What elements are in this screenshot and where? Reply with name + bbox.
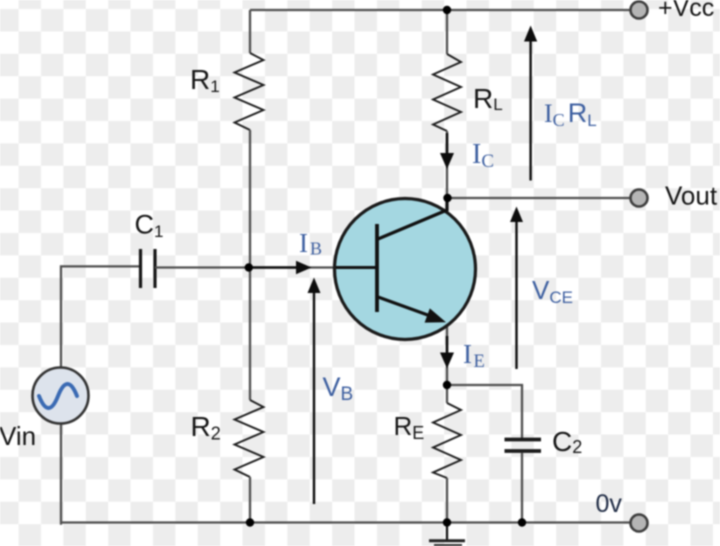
node Vout / collector	[443, 194, 451, 202]
svg-text:Vin: Vin	[0, 421, 36, 451]
resistor R2	[235, 400, 264, 477]
svg-text:Vout: Vout	[665, 181, 718, 211]
wire emitter lead	[446, 322, 448, 385]
source Vin sine	[39, 384, 77, 408]
svg-text:IC: IC	[472, 139, 494, 172]
svg-text:RL: RL	[473, 83, 503, 114]
svg-text:R2: R2	[191, 411, 221, 444]
transistor Q1 base wire	[336, 266, 377, 269]
wire C1 to base	[155, 266, 340, 268]
arrow IC	[446, 133, 449, 156]
resistor RE	[433, 403, 461, 478]
resistor RL	[433, 54, 461, 131]
source Vin circle	[33, 368, 89, 424]
transistor Q1 base bar	[375, 224, 379, 312]
arrow IE	[446, 336, 449, 355]
arrow VB	[313, 291, 315, 504]
svg-text:IB: IB	[299, 228, 322, 259]
ground	[429, 541, 465, 546]
wire base node to R2 top	[249, 268, 251, 401]
arrow IB	[253, 266, 298, 269]
transistor Q1 body	[335, 199, 476, 340]
wire bottom 0v rail	[61, 521, 630, 523]
terminal +Vcc	[631, 2, 648, 19]
wire RE top lead	[446, 385, 448, 403]
wire R2 bottom to 0v rail	[249, 477, 251, 523]
terminal Vout	[631, 190, 648, 207]
wire emitter node to C2	[447, 385, 522, 438]
resistor R1	[235, 53, 264, 130]
node C2 / 0v rail	[518, 518, 526, 526]
svg-text:VCE: VCE	[532, 275, 573, 307]
transistor Q1 collector stroke	[378, 198, 447, 239]
node base / R1 R2	[245, 263, 253, 271]
wire ground stub	[446, 523, 448, 541]
wire R1 top stub	[249, 10, 251, 53]
svg-text:0v: 0v	[596, 490, 623, 518]
wire Vin bottom lead	[61, 424, 62, 524]
transistor Q1 emitter stroke	[378, 297, 436, 318]
svg-text:C1: C1	[135, 210, 164, 242]
node emitter / RE C2	[443, 381, 451, 389]
wire RL bottom to Vout node	[446, 131, 448, 198]
wire RL top stub	[446, 10, 448, 54]
wire RE bottom lead	[446, 478, 448, 523]
arrow IC RL	[529, 40, 531, 181]
capacitor C1	[141, 249, 156, 288]
svg-text:C2: C2	[552, 426, 582, 457]
node RE / 0v rail	[443, 518, 451, 526]
svg-text:ICRL: ICRL	[544, 98, 597, 130]
terminal 0v	[631, 515, 648, 532]
arrow VCE	[515, 221, 517, 369]
wire Vin top lead	[61, 266, 139, 367]
capacitor C2	[505, 440, 542, 452]
wire top rail +Vcc	[250, 9, 630, 11]
svg-text:IE: IE	[463, 339, 485, 372]
node R2 / 0v rail	[246, 518, 254, 526]
svg-text:+Vcc: +Vcc	[658, 0, 714, 22]
wire R1 bottom to base node	[249, 130, 251, 268]
svg-text:R1: R1	[190, 64, 220, 96]
node at top rail / RL	[443, 6, 451, 14]
transistor Q1 emitter arrowhead	[425, 308, 446, 322]
svg-text:VB: VB	[323, 372, 354, 405]
wire C2 bottom lead	[521, 453, 523, 523]
svg-text:RE: RE	[394, 411, 425, 443]
wire Vout	[447, 197, 630, 199]
